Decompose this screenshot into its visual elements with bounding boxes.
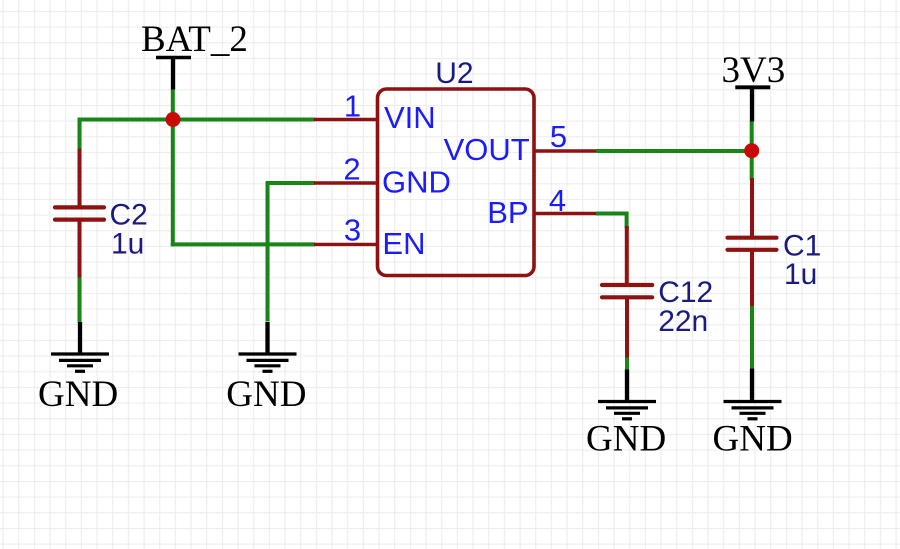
ground symbol G1 stem (C2 net)	[78, 322, 82, 354]
pin 3 (EN) lead	[314, 243, 377, 246]
capacitor C1 bottom lead	[750, 251, 754, 306]
capacitor C12 bottom lead	[625, 299, 629, 358]
pin 4 (BP) lead	[535, 212, 597, 215]
wire net BAT: left drop to C2	[78, 118, 82, 151]
ground symbol G4 bars	[724, 402, 782, 419]
capacitor C2 top lead	[78, 149, 82, 207]
junction dot node 3V3	[744, 143, 759, 158]
svg-text:GND: GND	[713, 419, 793, 460]
IC U2 body	[378, 89, 535, 276]
junction dot node BAT	[166, 112, 181, 127]
wire net BP: horizontal stub at pin 4	[596, 212, 629, 216]
svg-text:1u: 1u	[111, 228, 144, 261]
ground symbol G3 bars	[598, 402, 656, 419]
pin 1 (VIN) lead	[314, 118, 377, 121]
power symbol BAT_2 stem	[171, 58, 175, 90]
svg-text:3V3: 3V3	[722, 50, 786, 91]
wire net GND: below C2	[78, 277, 82, 323]
svg-text:VIN: VIN	[384, 100, 436, 135]
capacitor C2 bottom lead	[78, 221, 82, 278]
wire net GND: vertical from pin 2 down to ground	[266, 181, 270, 322]
ground symbol G4 stem (C1 net)	[750, 369, 754, 402]
wire net GND: horizontal stub at pin 2	[268, 181, 316, 185]
power symbol 3V3 bar	[735, 85, 770, 89]
capacitor C1 top lead	[750, 178, 754, 236]
capacitor C1 top plate	[728, 236, 777, 240]
svg-text:BAT_2: BAT_2	[141, 19, 248, 60]
svg-text:GND: GND	[586, 419, 666, 460]
wire net BAT: horizontal to pin EN	[171, 242, 315, 246]
capacitor C1 bottom plate	[728, 248, 777, 252]
svg-text:GND: GND	[226, 374, 306, 415]
wire net BAT: horizontal from C2 top to pin VIN	[78, 118, 316, 122]
svg-text:EN: EN	[382, 226, 425, 261]
svg-text:2: 2	[343, 152, 360, 187]
svg-text:VOUT: VOUT	[444, 132, 530, 167]
ground symbol G2 stem (pin2 net)	[265, 322, 269, 354]
svg-text:4: 4	[549, 183, 566, 218]
wire net GND: below C1	[750, 305, 754, 369]
ground symbol G3 stem (C12 net)	[625, 370, 629, 402]
wire net 3V3: vertical through junction to C1	[750, 121, 754, 180]
capacitor C2 bottom plate	[55, 218, 104, 222]
pin 5 (VOUT) lead	[535, 149, 597, 152]
svg-text:GND: GND	[38, 374, 118, 415]
wire net 3V3: horizontal VOUT to junction	[596, 149, 752, 153]
svg-text:GND: GND	[382, 165, 451, 200]
svg-text:3: 3	[344, 213, 361, 248]
capacitor C2 top plate	[55, 205, 104, 209]
capacitor C12 bottom plate	[602, 295, 652, 299]
pin 2 (GND) lead	[314, 181, 377, 184]
ground symbol G2 bars	[239, 354, 297, 371]
svg-text:22n: 22n	[658, 305, 708, 338]
capacitor C12 top plate	[602, 283, 652, 287]
capacitor C12 top lead	[625, 226, 629, 283]
svg-text:BP: BP	[487, 195, 528, 230]
ground symbol G1 bars	[51, 354, 109, 371]
svg-text:5: 5	[550, 119, 567, 154]
wire net BP: corner down to C12	[625, 212, 629, 229]
power symbol BAT_2 bar	[156, 56, 191, 59]
svg-text:1: 1	[344, 89, 361, 124]
wire net GND: below C12	[625, 357, 629, 371]
power symbol 3V3 stem	[750, 87, 754, 121]
svg-text:U2: U2	[435, 57, 473, 90]
svg-text:1u: 1u	[784, 258, 817, 291]
wire net BAT: vertical through junction down to EN level	[171, 89, 175, 246]
